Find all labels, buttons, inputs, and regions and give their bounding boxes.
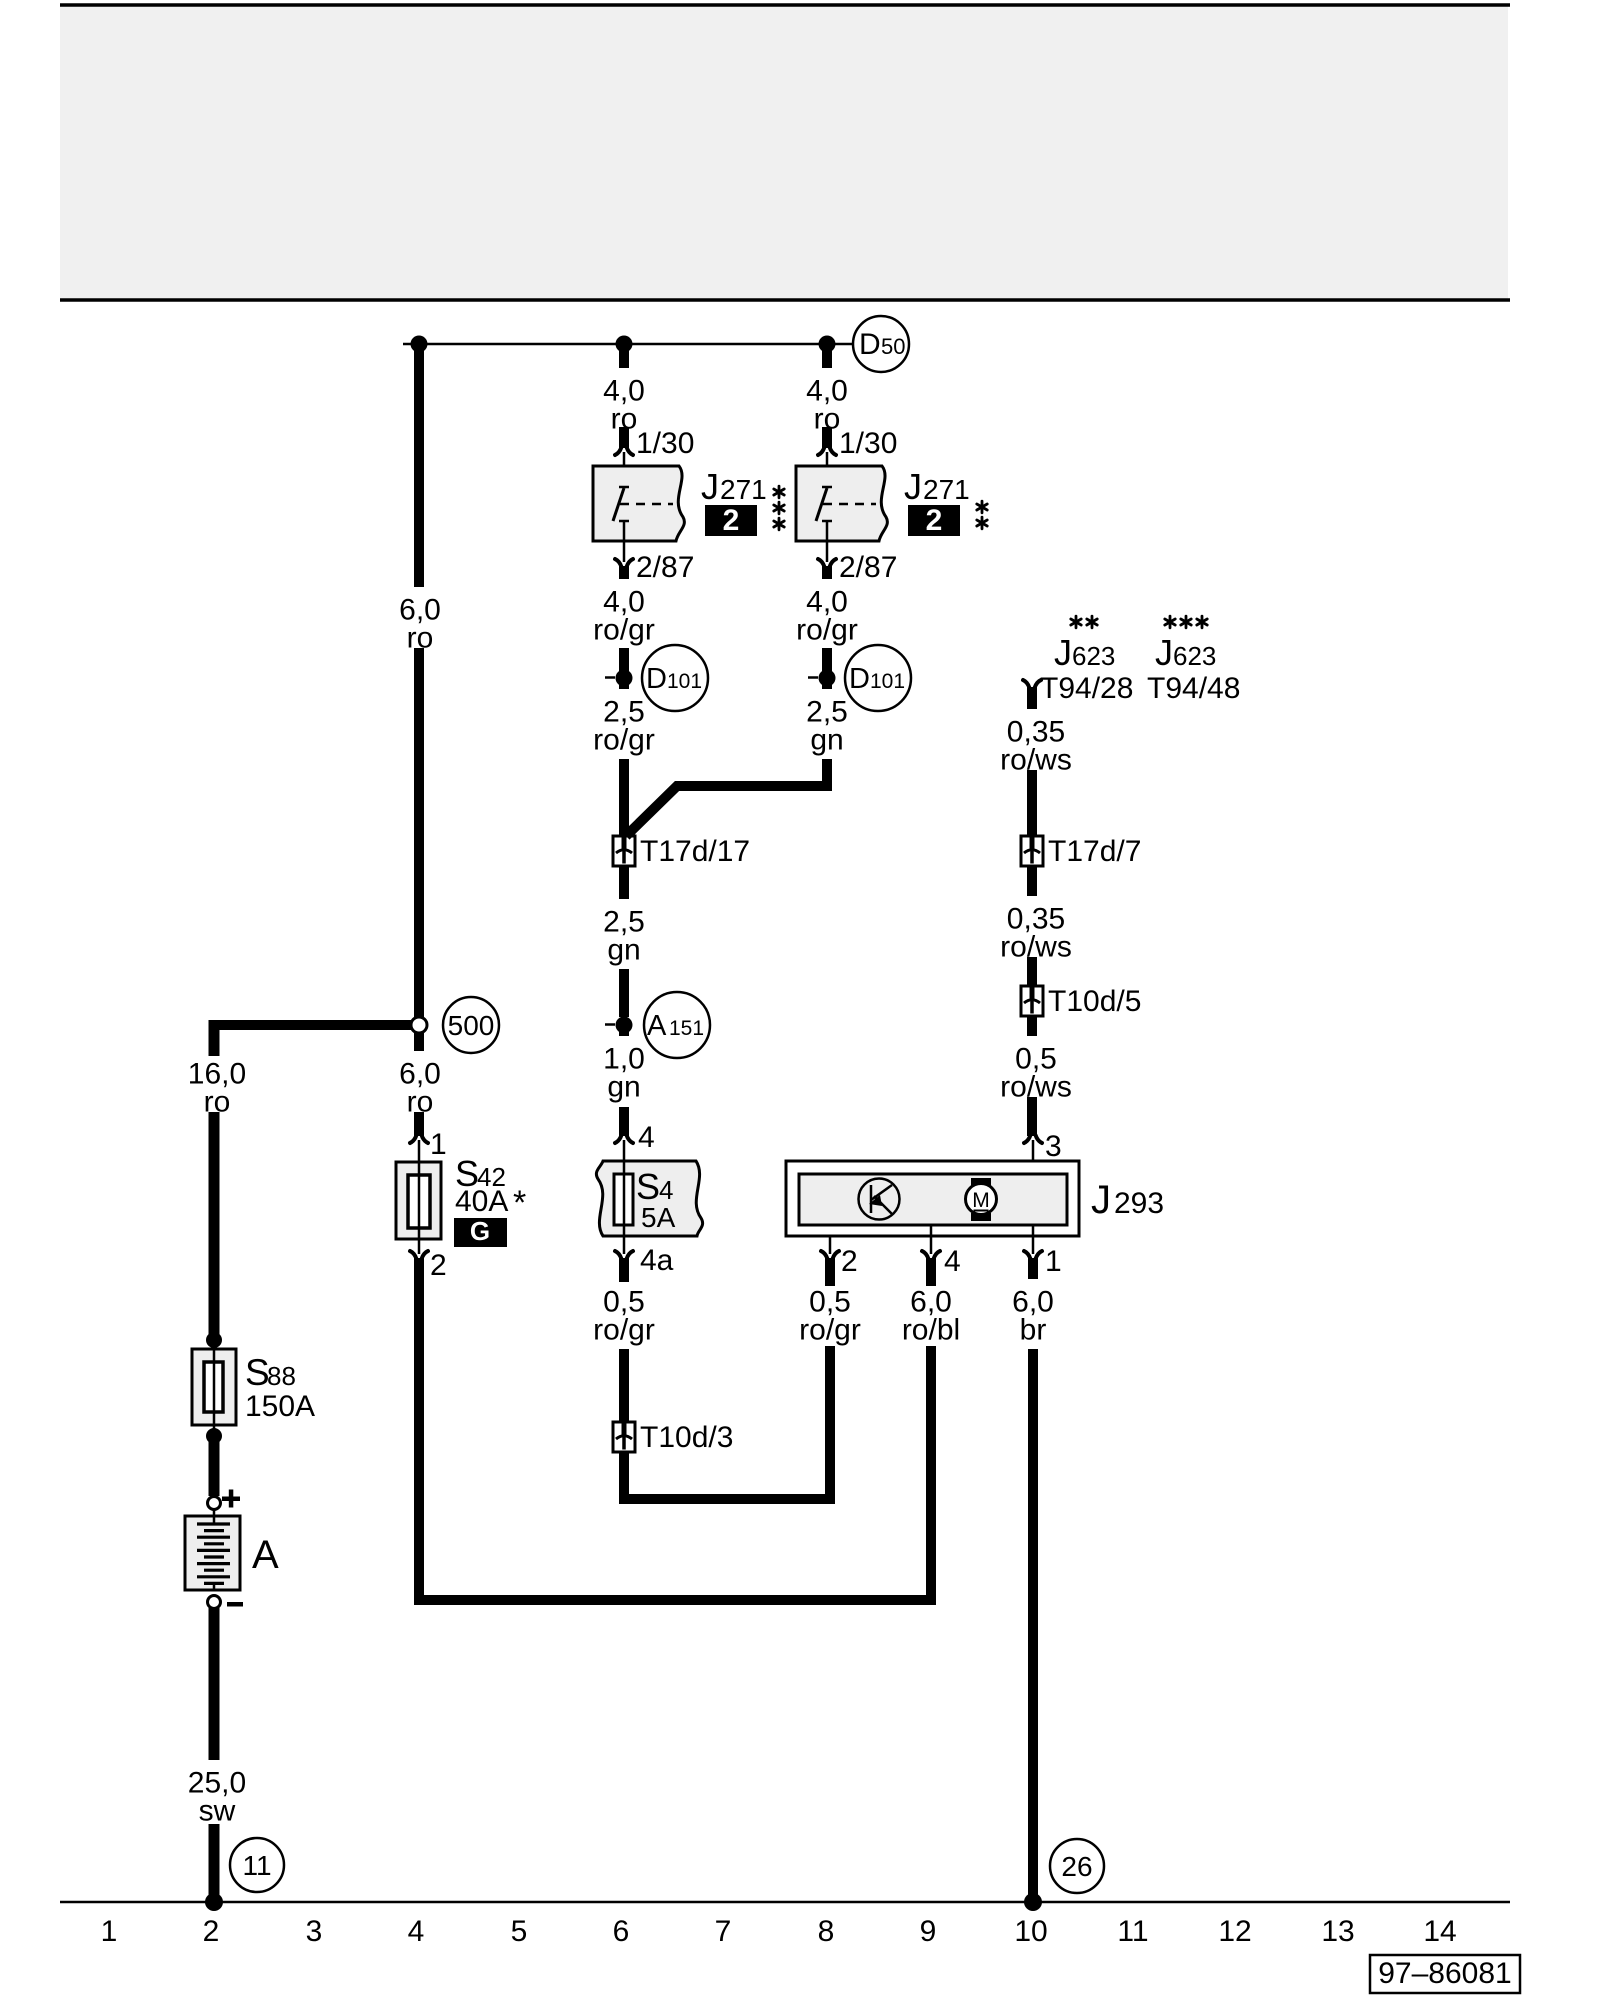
- wire 4,0 ro to relay J271: [619, 427, 629, 448]
- connector pin 4a of S4: [615, 1251, 633, 1259]
- svg-text:ro/gr: ro/gr: [799, 1314, 861, 1347]
- svg-text:J: J: [904, 466, 922, 507]
- wire 25,0 sw to ground 11: [209, 1824, 220, 1902]
- wire 0,5 ro/gr to T10d/3: [619, 1349, 629, 1422]
- junction dot below S88: [206, 1428, 222, 1444]
- wire 6,0 from S42 pin 2 down: [414, 1258, 424, 1605]
- wire 6,0 br to ground 26: [1028, 1349, 1038, 1902]
- svg-text:11: 11: [1117, 1915, 1148, 1948]
- wire 0,5 ro/gr stub below S4: [619, 1258, 629, 1282]
- svg-text:2: 2: [203, 1915, 220, 1948]
- connector pin 2 of J293: [829, 1225, 832, 1254]
- connector pin 4 of J293: [930, 1225, 933, 1254]
- wire 4,0 ro/gr stub (left): [619, 566, 629, 579]
- wire 0,35 to T10d/5: [1027, 957, 1037, 986]
- J293 motor symbol M: [971, 1178, 991, 1186]
- svg-text:293: 293: [1114, 1187, 1164, 1220]
- current track rail: [60, 1901, 1510, 1904]
- node D101 circle (left): [642, 645, 708, 711]
- label + (battery positive): [222, 1497, 240, 1502]
- label 2 black box (right relay): [908, 505, 960, 536]
- svg-text:4: 4: [659, 1175, 673, 1205]
- wire 2,5 gn vertical (right): [822, 759, 832, 791]
- svg-text:271: 271: [923, 474, 970, 505]
- battery A box: [185, 1516, 240, 1590]
- svg-text:623: 623: [1173, 641, 1216, 671]
- node 500 (circle label): [443, 997, 499, 1053]
- connector T94/28 entry: [1023, 680, 1041, 688]
- wire 6,0 br stub below pin 1: [1028, 1258, 1038, 1279]
- node junction at column 4: [411, 336, 428, 353]
- svg-text:1: 1: [1045, 1245, 1062, 1278]
- node junction at column 6: [616, 336, 633, 353]
- wire 4,0 ro stub from bus (right): [822, 339, 832, 368]
- svg-text:10: 10: [1014, 1915, 1047, 1948]
- svg-text:gn: gn: [607, 1071, 640, 1104]
- connector 2/87 (left relay): [623, 521, 626, 562]
- node junction at column 8: [819, 336, 836, 353]
- svg-text:6: 6: [613, 1915, 630, 1948]
- node D101 tick (right): [808, 676, 818, 679]
- svg-text:A: A: [252, 1533, 279, 1577]
- connector T10d/3: [613, 1422, 635, 1452]
- svg-text:ro/bl: ro/bl: [902, 1314, 960, 1347]
- node D101 dot (right): [819, 670, 836, 687]
- svg-text:T94/48: T94/48: [1147, 672, 1240, 705]
- svg-text:14: 14: [1423, 1915, 1456, 1948]
- wire 6,0 ro/bl horizontal run: [414, 1595, 936, 1605]
- label - (battery negative): [227, 1602, 243, 1607]
- wire 25,0 sw upper: [209, 1608, 220, 1760]
- svg-text:1: 1: [430, 1128, 447, 1161]
- label 2 black box (left relay): [705, 505, 757, 536]
- node 11 (circle label): [230, 1838, 284, 1892]
- node A151 dot: [616, 1017, 633, 1034]
- svg-text:5A: 5A: [641, 1202, 676, 1233]
- svg-text:gn: gn: [810, 724, 843, 757]
- node D50 (circle label): [853, 316, 909, 372]
- asterisks *** (J623 second): [1165, 616, 1175, 628]
- wire junction 500 stub below: [414, 1030, 424, 1051]
- svg-text:2/87: 2/87: [636, 551, 694, 584]
- diagram number box 97-86081: [1370, 1955, 1520, 1993]
- svg-text:500: 500: [448, 1010, 495, 1041]
- wire 2,5 gn to node A151: [619, 969, 629, 1017]
- wire 0,35 to T17d/7: [1027, 770, 1037, 836]
- svg-text:G: G: [470, 1216, 490, 1246]
- battery minus terminal: [208, 1596, 221, 1609]
- node D101 tick (left): [605, 676, 615, 679]
- J293 switch symbol K: [859, 1179, 900, 1220]
- wire stub below D101 (left): [619, 678, 629, 689]
- connector pin 2 of S42: [418, 1239, 421, 1254]
- svg-text:50: 50: [881, 334, 905, 359]
- svg-text:T10d/5: T10d/5: [1048, 985, 1141, 1018]
- connector T17d/7: [1021, 836, 1043, 866]
- wire 0,5 below T10d/5: [1027, 1016, 1037, 1036]
- svg-text:T94/28: T94/28: [1040, 672, 1133, 705]
- wire 4,0 ro/gr stub (right): [822, 566, 832, 579]
- svg-text:40A: 40A: [455, 1185, 508, 1218]
- svg-text:2: 2: [926, 504, 943, 537]
- svg-text:9: 9: [920, 1915, 937, 1948]
- connector pin 1 of J293: [1032, 1225, 1035, 1254]
- svg-text:8: 8: [818, 1915, 835, 1948]
- svg-text:1/30: 1/30: [839, 427, 897, 460]
- svg-text:13: 13: [1321, 1915, 1354, 1948]
- wire 4,0 ro to relay J271 (right): [822, 427, 832, 448]
- wire 6,0 ro/bl stub below pin 4: [926, 1258, 936, 1286]
- connector 1/30 (right relay): [818, 447, 836, 455]
- J293 control unit box: [786, 1161, 1079, 1236]
- svg-text:4: 4: [408, 1915, 425, 1948]
- svg-text:J: J: [1155, 632, 1173, 673]
- relay J271 (left): [593, 466, 684, 541]
- connector 1/30 (left relay): [615, 447, 633, 455]
- svg-text:271: 271: [720, 474, 767, 505]
- svg-text:J: J: [1091, 1178, 1111, 1222]
- battery plus terminal: [208, 1497, 221, 1510]
- wire to node D101 (right): [822, 648, 832, 673]
- svg-text:5: 5: [511, 1915, 528, 1948]
- ground dot 26: [1024, 1893, 1042, 1911]
- svg-text:T17d/7: T17d/7: [1048, 835, 1141, 868]
- svg-text:br: br: [1020, 1314, 1047, 1347]
- svg-text:2/87: 2/87: [839, 551, 897, 584]
- wire 6,0 ro middle segment: [414, 648, 424, 1020]
- wire 16,0 ro horizontal from junction 500: [209, 1020, 419, 1030]
- connector 2/87 (right relay): [826, 521, 829, 562]
- fuse S88 150A: [192, 1349, 236, 1425]
- svg-text:2: 2: [841, 1245, 858, 1278]
- wire 16,0 ro to fuse S88: [209, 1112, 220, 1340]
- wire 0,5 ro/gr elbow to J293 pin 2: [619, 1452, 629, 1504]
- wire 6,0 ro upper segment: [414, 339, 424, 587]
- svg-text:M: M: [972, 1189, 990, 1212]
- svg-text:4: 4: [944, 1245, 961, 1278]
- svg-text:S: S: [245, 1352, 270, 1393]
- svg-text:97–86081: 97–86081: [1378, 1957, 1511, 1990]
- svg-text:11: 11: [242, 1850, 271, 1881]
- wire 2,5 to T17d/17: [619, 759, 629, 836]
- svg-text:7: 7: [715, 1915, 732, 1948]
- svg-text:S: S: [636, 1166, 660, 1207]
- svg-text:D: D: [646, 663, 667, 695]
- connector pin 3 of J293: [1024, 1135, 1042, 1143]
- svg-text:12: 12: [1218, 1915, 1251, 1948]
- wire stub below D101 (right): [822, 678, 832, 689]
- node 26 (circle label): [1050, 1839, 1104, 1893]
- wire 1,0 gn to S4 pin 4: [619, 1107, 629, 1136]
- header band (empty legend area): [60, 5, 1508, 300]
- svg-text:D: D: [859, 328, 881, 361]
- svg-text:gn: gn: [607, 934, 640, 967]
- svg-text:ro/gr: ro/gr: [593, 614, 655, 647]
- svg-text:2: 2: [723, 504, 740, 537]
- svg-text:D: D: [849, 663, 870, 695]
- svg-text:4: 4: [638, 1121, 655, 1154]
- label G (black box): [454, 1218, 507, 1247]
- connector T10d/5: [1021, 986, 1043, 1016]
- svg-text:T10d/3: T10d/3: [640, 1421, 733, 1454]
- svg-text:3: 3: [1045, 1130, 1062, 1163]
- svg-text:3: 3: [306, 1915, 323, 1948]
- svg-text:*: *: [513, 1184, 526, 1222]
- wire 2,5 gn below T17d/17: [619, 866, 629, 899]
- fuse S4 5A (torn box): [596, 1161, 702, 1236]
- asterisks *** (left relay): [774, 486, 784, 498]
- connector T17d/17: [613, 836, 635, 866]
- wire 6,0 ro/bl riser to J293 pin 4: [926, 1346, 936, 1605]
- node A151 tick: [605, 1023, 615, 1026]
- asterisks ** (J623 first): [1071, 616, 1081, 628]
- battery plates: [197, 1522, 230, 1525]
- junction dot above S88: [206, 1332, 222, 1348]
- wire 4,0 ro stub from bus: [619, 339, 629, 368]
- svg-text:623: 623: [1072, 641, 1115, 671]
- wire 16,0 ro corner segment: [209, 1020, 220, 1056]
- junction 500 (open node): [411, 1017, 427, 1033]
- wire to fuse S42 pin 1: [414, 1112, 424, 1136]
- ground dot 11: [205, 1893, 223, 1911]
- wire 0,35 ro/ws stub: [1027, 687, 1037, 709]
- wire 0,5 to J293 pin 3: [1027, 1097, 1037, 1136]
- node D101 circle (right): [845, 645, 911, 711]
- wire 0,35 below T17d/7: [1027, 866, 1037, 896]
- fuse S42 40A: [396, 1162, 441, 1239]
- svg-text:26: 26: [1061, 1851, 1092, 1882]
- svg-text:151: 151: [669, 1017, 704, 1040]
- svg-text:101: 101: [667, 670, 702, 693]
- svg-text:J: J: [701, 466, 719, 507]
- wire to node D101 (left): [619, 648, 629, 673]
- svg-text:ro/gr: ro/gr: [593, 724, 655, 757]
- asterisks ** (right relay): [977, 501, 987, 513]
- wire 30-bus (thin horizontal supply line): [403, 343, 853, 346]
- svg-text:T17d/17: T17d/17: [640, 835, 750, 868]
- svg-text:101: 101: [870, 670, 905, 693]
- svg-text:J: J: [1054, 632, 1072, 673]
- wire stub below A151: [619, 1025, 629, 1036]
- connector pin 4 of S4: [615, 1135, 633, 1143]
- wire from S88 to battery plus: [209, 1436, 220, 1496]
- svg-text:150A: 150A: [245, 1390, 315, 1423]
- relay J271 (right): [796, 466, 887, 541]
- svg-text:2: 2: [430, 1249, 447, 1282]
- svg-text:1/30: 1/30: [636, 427, 694, 460]
- node D101 dot (left): [616, 670, 633, 687]
- wire 2,5 gn elbow and diagonal to T17d/17: [626, 786, 832, 836]
- svg-text:4a: 4a: [640, 1244, 674, 1277]
- svg-text:1: 1: [101, 1915, 118, 1948]
- svg-text:88: 88: [267, 1361, 296, 1391]
- connector pin 1 of S42: [410, 1135, 428, 1143]
- svg-text:A: A: [647, 1010, 667, 1042]
- svg-text:ro/gr: ro/gr: [796, 614, 858, 647]
- node A151 circle: [644, 992, 710, 1058]
- svg-text:ro/gr: ro/gr: [593, 1314, 655, 1347]
- svg-text:sw: sw: [199, 1795, 236, 1828]
